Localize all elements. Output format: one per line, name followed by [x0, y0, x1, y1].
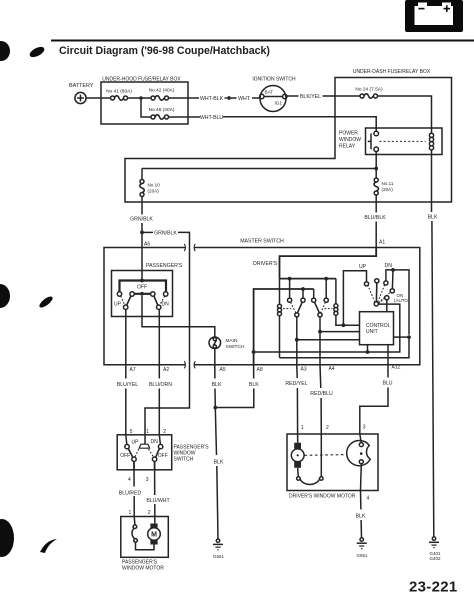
- rotary common dashed to UP: [368, 286, 375, 303]
- wire AUTO lower contact to control unit: [386, 300, 388, 312]
- wire bus to down-relay NO contact: [289, 279, 291, 298]
- wire GRN/BLK No.10 down: [141, 197, 143, 215]
- passenger switch contacts: [114, 285, 169, 310]
- wire battery to under-hood box: [86, 97, 110, 99]
- wire BLU/BLK No.11 to A1: [375, 195, 377, 213]
- dashed rocker left: [135, 449, 139, 457]
- fuse No.11 (20A): [374, 169, 394, 196]
- wire up-relay coil to control unit: [336, 315, 360, 325]
- svg-text:UP: UP: [132, 440, 140, 446]
- svg-text:2: 2: [148, 510, 151, 516]
- rotary switch AUTO lower contact: [385, 296, 389, 300]
- power window relay: [339, 128, 442, 155]
- svg-text:UNDER-DASH FUSE/RELAY BOX: UNDER-DASH FUSE/RELAY BOX: [353, 69, 431, 75]
- svg-text:3: 3: [146, 477, 149, 483]
- svg-text:5: 5: [130, 429, 133, 435]
- svg-text:WINDOW: WINDOW: [339, 137, 361, 143]
- svg-text:PASSENGER'S: PASSENGER'S: [146, 263, 183, 269]
- wire DN net to down-relay coil: [280, 337, 410, 358]
- fuse No.24 (7.5A): [355, 87, 383, 99]
- svg-text:DN: DN: [385, 263, 393, 269]
- ignition switch: [252, 77, 296, 112]
- svg-text:OFF: OFF: [158, 453, 168, 459]
- svg-text:G551: G551: [213, 554, 225, 559]
- wire fuse41 to junction: [128, 97, 152, 99]
- svg-text:A1: A1: [379, 240, 385, 246]
- wire BLK/YEL ignition to under-dash: [287, 95, 299, 97]
- wire relay coil to ground BLK: [431, 150, 433, 212]
- svg-text:BLK/YEL: BLK/YEL: [300, 94, 321, 100]
- DN net top wire: [386, 270, 409, 335]
- passenger UP lever: [127, 296, 131, 305]
- up-relay actuation link (dashed): [325, 308, 333, 310]
- svg-text:A6: A6: [144, 242, 150, 248]
- wire bus to up-relay coil: [335, 279, 337, 304]
- master switch box: [104, 239, 420, 369]
- wire control unit ground port: [367, 345, 369, 352]
- svg-text:DRIVER'S WINDOW MOTOR: DRIVER'S WINDOW MOTOR: [289, 494, 356, 500]
- svg-text:RED/YEL: RED/YEL: [285, 381, 307, 387]
- junction dot NC bus left: [301, 287, 305, 291]
- control unit: [360, 312, 394, 345]
- svg-text:GRN/BLK: GRN/BLK: [130, 217, 153, 223]
- svg-text:BAT: BAT: [265, 89, 274, 94]
- wire passenger DN output to A2: [158, 309, 160, 364]
- svg-text:1: 1: [146, 429, 149, 435]
- svg-text:G402: G402: [429, 556, 441, 561]
- wire BLK A8 down: [253, 365, 255, 379]
- wire BLU/RED to passenger motor: [133, 470, 135, 487]
- fuse No.46 (40A): [149, 107, 175, 119]
- svg-text:BLU: BLU: [382, 381, 392, 387]
- svg-text:POWER: POWER: [339, 131, 358, 137]
- wire bus to down-relay coil: [279, 279, 281, 305]
- wire bus to up-relay NO contact: [325, 279, 327, 298]
- svg-text:GRN/BLK: GRN/BLK: [154, 231, 177, 237]
- svg-text:G551: G551: [356, 553, 368, 558]
- driver's feed bus: [280, 278, 336, 280]
- junction dot UP net: [342, 323, 346, 327]
- up-relay coil: [334, 304, 338, 315]
- under-hood fuse/relay box: [101, 82, 188, 124]
- svg-text:IG1: IG1: [275, 101, 283, 106]
- wire relay output to No.10: [142, 168, 376, 170]
- main switch: [209, 337, 245, 350]
- junction dot A4 to control unit: [318, 330, 322, 334]
- svg-text:2: 2: [163, 429, 166, 435]
- svg-text:3: 3: [363, 425, 366, 431]
- rotary switch UP contact: [364, 282, 368, 286]
- svg-text:BLK: BLK: [212, 382, 222, 388]
- down-relay actuation link (dashed): [283, 308, 291, 310]
- passenger switch feed bar from A6: [120, 281, 167, 292]
- junction dot feed of No.42/No.46: [139, 96, 143, 100]
- svg-text:2: 2: [326, 425, 329, 431]
- driver motor M: [291, 434, 304, 468]
- wire BLU/YEL A7 to passenger window switch: [125, 365, 127, 379]
- svg-text:1: 1: [301, 425, 304, 431]
- fuse No.41 (80A): [106, 89, 132, 101]
- wire A1 to driver's feed bus: [280, 248, 377, 279]
- ground G551 (master switch): [213, 539, 225, 559]
- junction dot DN to AUTO upper: [391, 268, 395, 272]
- junction dot GRN/BLK branch: [140, 231, 144, 235]
- svg-text:MASTER SWITCH: MASTER SWITCH: [240, 239, 284, 245]
- fuse No.10 (20A): [140, 169, 160, 197]
- ground G551 (driver motor): [356, 538, 368, 558]
- svg-text:CONTROL: CONTROL: [366, 323, 391, 329]
- page header rule: [51, 40, 474, 42]
- rotary switch neutral contact: [375, 279, 379, 283]
- wire NC bus to up-relay NC contact: [313, 289, 315, 298]
- scan blob artifact middle-left: [0, 284, 54, 309]
- wire A3 sense to control unit: [297, 339, 360, 341]
- svg-text:RELAY: RELAY: [339, 144, 356, 150]
- wire BLK to ground G551: [215, 408, 216, 456]
- svg-text:WHT-BLU: WHT-BLU: [200, 115, 224, 121]
- rotary common dashed to DN: [378, 285, 385, 302]
- svg-text:UNIT: UNIT: [366, 329, 378, 335]
- svg-text:1: 1: [129, 510, 132, 516]
- wire No.24 to relay coil: [378, 96, 432, 133]
- junction dot OFF common: [140, 292, 144, 296]
- junction dot A8 ground bus: [252, 350, 256, 354]
- pulser: [347, 434, 371, 466]
- passenger motor M: [148, 517, 161, 545]
- driver motor internal connector loop: [297, 434, 324, 484]
- passenger motor internal wire: [136, 542, 155, 550]
- svg-text:No 46 (40A): No 46 (40A): [149, 107, 175, 113]
- svg-text:BLU/BLK: BLU/BLK: [364, 215, 386, 221]
- svg-text:(AUTO): (AUTO): [394, 298, 410, 303]
- passenger switch OFF common bar: [134, 293, 150, 295]
- scan blob artifact bottom-left: [0, 519, 57, 557]
- wire passenger UP output to A7: [125, 309, 127, 364]
- wire down-relay common to A3: [296, 317, 298, 365]
- driver's window motor box: [287, 434, 378, 500]
- rotary switch AUTO upper contact: [390, 289, 394, 293]
- lever 2 to output 3: [156, 449, 160, 458]
- wire down-relay coil bottom: [279, 316, 281, 358]
- rotary common dashed to AUTO upper: [378, 292, 390, 303]
- splice dot WHT-BLK/WHT: [227, 96, 231, 100]
- svg-text:DN: DN: [151, 439, 159, 445]
- svg-text:OFF: OFF: [137, 285, 147, 291]
- lever 5 to output 4: [128, 448, 133, 457]
- passenger switch terminal 5 contact: [125, 435, 129, 449]
- junction dot ground wires join: [213, 406, 217, 410]
- wire output 4: [133, 461, 135, 469]
- svg-text:IGNITION SWITCH: IGNITION SWITCH: [252, 77, 296, 83]
- svg-text:No.11: No.11: [382, 181, 394, 186]
- svg-text:OFF: OFF: [120, 453, 130, 459]
- junction dot DN net at control unit right: [407, 335, 411, 339]
- svg-text:BLU/RED: BLU/RED: [119, 490, 142, 496]
- passenger UP alternate (dashed): [121, 296, 125, 305]
- down-relay coil: [278, 304, 282, 315]
- passenger's switch sub-box (in master switch): [112, 263, 183, 317]
- passenger motor connector crescent: [132, 517, 137, 543]
- wire WHT-BLU from No.46 to relay: [169, 116, 201, 118]
- svg-text:A2: A2: [163, 367, 169, 373]
- wire GRN/BLK branch inline label: [142, 231, 153, 233]
- passenger's window motor box: [121, 517, 169, 572]
- svg-text:23-221: 23-221: [409, 579, 458, 596]
- svg-text:WINDOW MOTOR: WINDOW MOTOR: [122, 566, 164, 572]
- svg-text:No 24 (7.5A): No 24 (7.5A): [355, 87, 383, 93]
- junction dot bus to down-relay contact: [288, 277, 292, 281]
- junction dot A3 to control unit: [295, 338, 299, 342]
- junction dot bus to up-relay contact: [324, 277, 328, 281]
- svg-text:DRIVER'S: DRIVER'S: [253, 261, 278, 267]
- svg-text:A5: A5: [220, 367, 226, 373]
- svg-text:BLK: BLK: [214, 460, 224, 466]
- svg-text:BLK: BLK: [428, 215, 438, 221]
- svg-text:(20A): (20A): [148, 189, 160, 194]
- wire BLK A5 down: [214, 365, 216, 379]
- svg-text:BATTERY: BATTERY: [69, 83, 94, 89]
- svg-text:BLU/ORN: BLU/ORN: [149, 382, 172, 388]
- wire main switch to A5: [214, 349, 216, 365]
- driver's ground bus from A8: [254, 289, 314, 365]
- passenger's window switch: [117, 435, 209, 470]
- up-relay switch contacts: [312, 298, 329, 317]
- passenger switch terminal 2 contact: [158, 435, 162, 449]
- svg-text:DN: DN: [162, 302, 170, 308]
- svg-text:SWITCH: SWITCH: [174, 457, 194, 463]
- ground G401/G402: [429, 537, 441, 561]
- svg-text:BLK: BLK: [356, 514, 366, 520]
- wire passenger common to main switch: [142, 296, 215, 337]
- driver motor to pulser dashed link: [305, 454, 348, 457]
- svg-text:A8: A8: [257, 367, 263, 373]
- svg-text:A3: A3: [301, 367, 307, 373]
- passenger DN lever: [154, 296, 158, 305]
- wire NC bus to down-relay NC contact: [302, 289, 304, 298]
- wire GRN/BLK passthrough to switch terminal 1: [145, 365, 190, 435]
- passenger switch rocker common: [139, 435, 149, 448]
- svg-text:RED/BLU: RED/BLU: [310, 391, 333, 397]
- down-relay switch contacts: [288, 298, 306, 317]
- wire up-relay common to A4: [319, 317, 321, 365]
- svg-text:SWITCH: SWITCH: [226, 344, 245, 350]
- wire control unit right port: [394, 336, 409, 338]
- wire to AUTO upper contact: [391, 270, 394, 289]
- wire RED/BLU A4 to driver motor: [319, 365, 322, 388]
- wire BLU/WHT to passenger motor: [154, 470, 156, 495]
- svg-text:No 10: No 10: [148, 183, 161, 188]
- wire A12 from control unit: [387, 345, 389, 378]
- svg-text:BLK: BLK: [249, 382, 259, 388]
- svg-text:UP: UP: [114, 302, 122, 308]
- wire A4 sense to control unit: [320, 331, 360, 333]
- junction dot A6 on bar: [140, 279, 144, 283]
- svg-text:(20A): (20A): [382, 187, 394, 192]
- passenger switch output contacts: [132, 457, 157, 461]
- svg-text:4: 4: [128, 477, 131, 483]
- battery page icon: [405, 0, 463, 32]
- battery: [69, 83, 94, 104]
- wire BLK driver motor ground: [360, 491, 362, 510]
- down-relay lever: [297, 302, 302, 313]
- rotary switch lever: [375, 283, 377, 302]
- svg-text:WHT: WHT: [238, 96, 251, 102]
- svg-text:BLU/YEL: BLU/YEL: [117, 382, 138, 388]
- rotary switch common: [374, 302, 378, 306]
- junction dot control unit ground: [366, 350, 370, 354]
- svg-text:A7: A7: [130, 367, 136, 373]
- wire No.42 out of box: [169, 97, 200, 99]
- svg-text:UP: UP: [359, 264, 367, 270]
- wire UP contact riser: [343, 271, 366, 325]
- scan blob artifact top-left: [0, 41, 46, 61]
- wire BLU/ORN A2 to passenger window switch: [158, 365, 160, 379]
- under-dash fuse/relay box: [125, 78, 452, 203]
- wire RED/YEL A3 to driver motor: [296, 365, 298, 378]
- wire relay contact to junction: [375, 152, 377, 169]
- svg-text:No 41 (80A): No 41 (80A): [106, 89, 132, 95]
- branch wire down to No.46: [141, 98, 151, 117]
- wire output 3: [154, 461, 156, 469]
- up-relay lever: [315, 302, 320, 313]
- rotary common dashed to AUTO lower: [378, 298, 384, 303]
- junction dot relay output: [374, 167, 378, 171]
- svg-text:MAIN: MAIN: [226, 338, 239, 344]
- svg-text:WHT-BLK: WHT-BLK: [200, 96, 224, 102]
- svg-text:M: M: [151, 532, 157, 539]
- svg-text:Circuit Diagram ('96-98 Coupe/: Circuit Diagram ('96-98 Coupe/Hatchback): [59, 45, 270, 57]
- passenger DN alternate (dashed): [160, 296, 165, 305]
- rotary switch DN contact: [384, 281, 388, 285]
- up-relay alternate (dashed): [321, 302, 326, 313]
- svg-text:UNDER-HOOD FUSE/RELAY BOX: UNDER-HOOD FUSE/RELAY BOX: [102, 77, 181, 83]
- svg-text:BLU/WHT: BLU/WHT: [146, 498, 170, 504]
- svg-text:A4: A4: [329, 366, 335, 372]
- down-relay alternate (dashed): [291, 302, 296, 313]
- svg-text:4: 4: [367, 496, 370, 502]
- fuse No.42 (40A): [149, 88, 175, 101]
- svg-text:No 42 (40A): No 42 (40A): [149, 88, 175, 94]
- svg-text:A12: A12: [392, 365, 401, 371]
- wire rotary common to ground bus: [254, 304, 400, 352]
- wire pulser to pin 4: [360, 464, 363, 491]
- dashed rocker right: [149, 449, 154, 457]
